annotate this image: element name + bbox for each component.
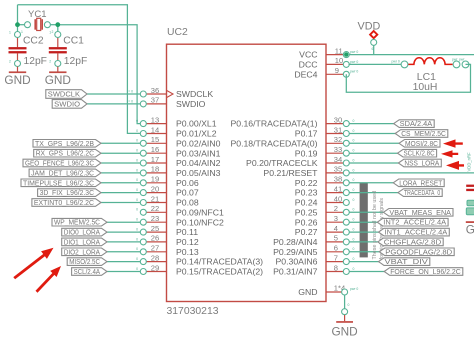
pin 29 P0.15/TRACEDATA(2) [143, 271, 166, 273]
net label MISO/2.5C [67, 258, 107, 266]
svg-text:34: 34 [334, 155, 342, 164]
svg-text:1: 1 [49, 31, 51, 35]
pin 37 SWDIO [143, 103, 166, 105]
pin circle row 31 [343, 131, 349, 137]
svg-text:pwr: pwr [459, 58, 465, 62]
svg-text:7: 7 [334, 253, 338, 262]
svg-text:2: 2 [9, 60, 11, 64]
pin 22 P0.09/NFC1 [143, 211, 166, 213]
wire junction down to CC1 [57, 25, 59, 35]
svg-text:CS_MEM/2.5C: CS_MEM/2.5C [401, 129, 446, 138]
net label TIMEPULSE_L96/2.3C [21, 179, 101, 187]
svg-text:DEC4: DEC4 [294, 69, 317, 79]
net label DIO0_LORA [62, 228, 107, 236]
capacitor at right edge plates [466, 185, 474, 187]
svg-text:8: 8 [334, 263, 338, 272]
svg-text:P0.15/TRACEDATA(2): P0.15/TRACEDATA(2) [176, 267, 263, 277]
pin circle 37 [140, 101, 146, 107]
crystal YC1 [35, 18, 42, 30]
pin 11 VCC [326, 54, 346, 56]
pin 1*4 GND [326, 291, 345, 293]
svg-text:2: 2 [52, 30, 54, 34]
svg-text:pwr 0: pwr 0 [350, 60, 358, 64]
svg-text:P0.23: P0.23 [295, 188, 318, 198]
net label VBAT_MEAS_ENA [383, 209, 453, 217]
capacitor CC1 pin 2 [55, 61, 61, 67]
svg-text:0: 0 [353, 208, 355, 212]
svg-text:17: 17 [151, 155, 159, 164]
junction at pin 11 VCC [344, 52, 349, 57]
ground GND bottom [344, 315, 346, 321]
pin circle row 6 [343, 249, 349, 255]
svg-text:P0.02/AIN0: P0.02/AIN0 [176, 138, 221, 148]
pin 15 P0.02/AIN0 [143, 142, 166, 144]
pin circle 27 [140, 249, 146, 255]
pin 19 P0.06 [143, 182, 166, 184]
pin 36 SWDCLK [143, 93, 166, 95]
pin circle 16 [140, 150, 146, 156]
svg-text:JAM_DET_L96/2.3C: JAM_DET_L96/2.3C [31, 168, 94, 177]
svg-text:GEO_FENCE_L96/2.3C: GEO_FENCE_L96/2.3C [25, 159, 94, 168]
svg-text:VBAT_MEAS_ENA: VBAT_MEAS_ENA [389, 208, 451, 217]
wire VBAT_DIV net [346, 261, 380, 263]
net label RX_GPS_L96/2.2C [34, 149, 101, 157]
pin 25 P0.11 [143, 231, 166, 233]
wire DCC to inductor LC1 [349, 63, 405, 65]
pin 31 P0.17 [326, 133, 346, 135]
pin circle 19 [140, 180, 146, 186]
svg-text:INT1_ACCEL/2.4A: INT1_ACCEL/2.4A [385, 228, 448, 237]
svg-text:0: 0 [136, 178, 138, 182]
wire INT2_ACCEL/2.4A net [346, 221, 379, 223]
svg-text:0: 0 [353, 218, 355, 222]
svg-text:CC1: CC1 [63, 35, 84, 46]
pin 35 P0.21/RESET [326, 172, 346, 174]
svg-text:LORA_RESET: LORA_RESET [399, 178, 443, 187]
pin circle 15 [140, 140, 146, 146]
svg-text:3D_FIX_L96/2.3C: 3D_FIX_L96/2.3C [40, 188, 94, 197]
wire TRACEDATA_0 net [346, 192, 400, 194]
svg-text:TRACEDATA_0: TRACEDATA_0 [404, 188, 440, 197]
net label JAM_DET_L96/2.3C [29, 169, 101, 177]
wire GEO_FENCE_L96/2.3C net [101, 162, 143, 164]
annotation arrow 1 pointing at DIO1_LORA [13, 248, 53, 279]
pin 5 P0.28/AIN4 [326, 241, 346, 243]
wire VBAT_MEAS_ENA net [346, 211, 385, 213]
svg-text:0: 0 [353, 188, 355, 192]
svg-text:P0.21/RESET: P0.21/RESET [263, 168, 318, 178]
pin 33 P0.19 [326, 152, 346, 154]
svg-text:RX_GPS_L96/2.2C: RX_GPS_L96/2.2C [36, 149, 94, 158]
svg-text:P0.03/AIN1: P0.03/AIN1 [176, 148, 221, 158]
svg-text:10uH: 10uH [413, 82, 438, 93]
pin circle 29 [140, 269, 146, 275]
svg-text:P0.17: P0.17 [295, 129, 318, 139]
pin circle row 4 [343, 229, 349, 235]
svg-text:32: 32 [334, 135, 342, 144]
svg-text:1: 1 [9, 31, 11, 35]
svg-text:26: 26 [151, 234, 159, 243]
svg-text:pwr 0: pwr 0 [350, 287, 358, 291]
svg-text:VBAT_DIV: VBAT_DIV [385, 257, 429, 266]
svg-text:CHGFLAG/2.8D: CHGFLAG/2.8D [384, 237, 441, 246]
svg-text:INT2_ACCEL/2.4A: INT2_ACCEL/2.4A [383, 218, 446, 227]
svg-text:0: 0 [136, 198, 138, 202]
svg-text:317030213: 317030213 [167, 306, 219, 317]
svg-text:DIO2_LORA: DIO2_LORA [64, 247, 100, 256]
svg-text:0: 0 [348, 303, 350, 307]
svg-text:VCC: VCC [299, 50, 317, 60]
svg-text:0: 0 [136, 139, 138, 143]
pin 2 P0.25 [326, 211, 346, 213]
svg-text:DIO1_LORA: DIO1_LORA [64, 237, 100, 246]
svg-text:GND: GND [466, 222, 474, 236]
net label SWDIO [52, 100, 87, 109]
svg-text:0: 0 [353, 158, 355, 162]
wire MISO/2.5C net [107, 261, 143, 263]
pin 41 P0.23 [326, 192, 346, 194]
net label EXTINT0_L96/2.2C [32, 199, 101, 207]
pin circle row 5 [343, 239, 349, 245]
wire CHGFLAG/2.8D net [346, 241, 380, 243]
pin circle row 33 [343, 150, 349, 156]
svg-text:SWDIO: SWDIO [176, 99, 206, 109]
svg-text:pwr 0: pwr 0 [350, 50, 358, 54]
wire PGOODFLAG/2.8D net [346, 251, 381, 253]
net label INT1_ACCEL/2.4A [379, 228, 450, 236]
svg-text:0: 0 [136, 218, 138, 222]
net label SCL/2.4A [72, 268, 107, 276]
pin circle 20 [140, 190, 146, 196]
net label TX_GPS_L96/2.2B [33, 140, 101, 148]
svg-text:DCC: DCC [299, 60, 318, 70]
svg-text:40: 40 [334, 194, 342, 203]
svg-text:P0.13: P0.13 [176, 247, 199, 257]
svg-text:33: 33 [334, 145, 342, 154]
green pads at right edge [467, 200, 474, 205]
pin circle 18 [140, 170, 146, 176]
svg-text:= 0: = 0 [128, 90, 133, 94]
svg-text:P0.29/AIN5: P0.29/AIN5 [273, 247, 318, 257]
pin 23 P0.10/NFC2 [143, 221, 166, 223]
pin 17 P0.04/AIN2 [143, 162, 166, 164]
net label SCLK/2.8C [398, 149, 437, 157]
net label INT2_ACCEL/2.4A [377, 218, 448, 226]
wire DEC4 loop under inductor [346, 64, 470, 92]
svg-text:0: 0 [353, 178, 355, 182]
svg-text:P0.26: P0.26 [295, 217, 318, 227]
junction node XC2 [15, 22, 20, 27]
pin 34 P0.20/TRACECLK [326, 162, 346, 164]
svg-text:0: 0 [136, 188, 138, 192]
wire DIO0_LORA net [107, 231, 143, 233]
svg-text:VDD: VDD [358, 21, 381, 33]
svg-text:0: 0 [353, 198, 355, 202]
svg-text:pwr 0: pwr 0 [392, 60, 400, 64]
wire crystal top loop XC2 net [18, 5, 144, 134]
inductor LC1 [408, 58, 453, 65]
pin 21 P0.08 [143, 202, 166, 204]
ground GND under CC2 [17, 67, 19, 72]
pin 40 P0.24 [326, 202, 346, 204]
svg-text:21: 21 [151, 194, 159, 203]
net label CHGFLAG/2.8D [378, 238, 443, 246]
net label FORCE_ON_L96/2.2C [384, 268, 463, 276]
svg-text:0: 0 [136, 237, 138, 241]
svg-text:P0.04/AIN2: P0.04/AIN2 [176, 158, 221, 168]
wire LORA_RESET net [346, 182, 395, 184]
svg-text:GND: GND [45, 73, 71, 87]
svg-text:3: 3 [334, 214, 338, 223]
net label WP_MEM/2.5C [52, 218, 107, 226]
svg-text:P0.20/TRACECLK: P0.20/TRACECLK [246, 158, 318, 168]
svg-text:= 0: = 0 [128, 100, 133, 104]
pin circle 10 [343, 61, 349, 67]
svg-text:WP_MEM/2.5C: WP_MEM/2.5C [54, 218, 100, 227]
svg-text:12pF: 12pF [24, 56, 47, 67]
svg-text:18: 18 [151, 165, 159, 174]
pin circle 36 [140, 91, 146, 97]
net label SDA/2.4A [394, 120, 435, 128]
svg-text:0: 0 [136, 267, 138, 271]
svg-text:P0.19: P0.19 [295, 148, 318, 158]
svg-text:0: 0 [136, 208, 138, 212]
net label DIO2_LORA [62, 248, 107, 256]
net label CS_MEM/2.5C [395, 130, 448, 138]
pin circle 13 [140, 121, 146, 127]
wire EXTINT0_L96/2.2C net [101, 202, 143, 204]
net label SWDCLK [46, 90, 87, 99]
svg-text:37: 37 [151, 96, 159, 105]
svg-text:VDD_nRF: VDD_nRF [467, 152, 472, 172]
svg-text:14: 14 [151, 125, 159, 134]
pin circle row 35 [343, 170, 349, 176]
svg-text:0: 0 [353, 168, 355, 172]
annotation arrow 4 pointing at SCLK tag [441, 150, 458, 157]
wire CS_MEM/2.5C net [346, 133, 397, 135]
annotation arrow 3 pointing at MOSI tag [443, 139, 463, 147]
svg-text:0: 0 [353, 267, 355, 271]
net label LORA_RESET [393, 179, 444, 187]
svg-text:MISO/2.5C: MISO/2.5C [69, 257, 100, 266]
pin 36 clock arrow [167, 90, 174, 97]
svg-text:0: 0 [136, 247, 138, 251]
svg-text:GND: GND [331, 324, 357, 338]
svg-text:0: 0 [136, 228, 138, 232]
svg-text:23: 23 [151, 214, 159, 223]
svg-text:15: 15 [151, 135, 159, 144]
pin 10 DCC [326, 63, 346, 65]
ground GND under CC1 [57, 67, 59, 72]
svg-text:P0.08: P0.08 [176, 198, 199, 208]
pin 18 P0.05/AIN3 [143, 172, 166, 174]
svg-text:MOSI/2.8C: MOSI/2.8C [405, 139, 438, 148]
svg-text:P0.28/AIN4: P0.28/AIN4 [273, 237, 318, 247]
net label DIO1_LORA [62, 238, 107, 246]
svg-text:35: 35 [334, 165, 342, 174]
pin circle row 3 [343, 219, 349, 225]
svg-text:SDA/2.4A: SDA/2.4A [400, 119, 433, 128]
svg-text:0: 0 [353, 119, 355, 123]
svg-text:0: 0 [353, 149, 355, 153]
svg-text:31: 31 [334, 125, 342, 134]
svg-text:P0.10/NFC2: P0.10/NFC2 [176, 217, 224, 227]
svg-text:P0.24: P0.24 [295, 198, 318, 208]
svg-text:1: 1 [21, 30, 23, 34]
svg-text:41: 41 [334, 184, 342, 193]
svg-text:P0.12: P0.12 [176, 237, 199, 247]
wire crystal XC1 net to pin 13 [58, 25, 144, 124]
svg-text:P0.25: P0.25 [295, 207, 318, 217]
pin 27 P0.13 [143, 251, 166, 253]
svg-text:25: 25 [151, 224, 159, 233]
net label GEO_FENCE_L96/2.3C [23, 159, 101, 167]
svg-text:P0.31/AIN7: P0.31/AIN7 [273, 267, 318, 277]
svg-text:12pF: 12pF [64, 56, 87, 67]
svg-text:20: 20 [151, 184, 159, 193]
svg-text:10: 10 [335, 56, 343, 65]
svg-text:0: 0 [353, 228, 355, 232]
svg-text:P0.05/AIN3: P0.05/AIN3 [176, 168, 221, 178]
svg-text:0: 0 [136, 168, 138, 172]
wire GND pin to ground symbol [344, 292, 346, 312]
pin circle row 7 [343, 259, 349, 265]
svg-text:P0.00/XL1: P0.00/XL1 [176, 119, 217, 129]
wire INT1_ACCEL/2.4A net [346, 231, 380, 233]
crystal pin 1 [25, 22, 31, 28]
svg-text:0: 0 [353, 247, 355, 251]
svg-text:0: 0 [136, 257, 138, 261]
pin circle 21 [140, 200, 146, 206]
pin circle 23 [140, 219, 146, 225]
pin circle row 30 [343, 121, 349, 127]
svg-text:36: 36 [151, 86, 159, 95]
net label NSS_LORA [398, 159, 441, 167]
wire SCL/2.4A net [107, 271, 143, 273]
wire left junction to CC2 and crystal [17, 5, 19, 35]
wire crystal right pin to junction [47, 24, 57, 26]
wire VCC rail to right edge [349, 54, 474, 56]
pin 30 P0.16/TRACEDATA(1) [326, 123, 346, 125]
svg-text:4: 4 [334, 224, 338, 233]
svg-text:P0.01/XL2: P0.01/XL2 [176, 129, 217, 139]
capacitor CC1 [57, 38, 59, 48]
svg-text:pwr 0: pwr 0 [350, 70, 358, 74]
pin 7 P0.30AIN6 [326, 261, 346, 263]
svg-text:6: 6 [334, 244, 338, 253]
svg-text:28: 28 [151, 253, 159, 262]
svg-text:0: 0 [353, 129, 355, 133]
inductor LC1 pin 2 [453, 61, 460, 68]
pin circle 28 [140, 259, 146, 265]
net label MOSI/2.8C [399, 140, 440, 148]
svg-text:SWDCLK: SWDCLK [48, 90, 80, 99]
svg-text:pwr: pwr [452, 58, 458, 62]
svg-text:0: 0 [136, 119, 138, 123]
svg-text:16: 16 [151, 145, 159, 154]
svg-text:FORCE_ON_L96/2.2C: FORCE_ON_L96/2.2C [390, 267, 461, 276]
capacitor CC2 [17, 38, 19, 48]
svg-text:P0.18/TRACEDATA(0): P0.18/TRACEDATA(0) [230, 138, 317, 148]
pin circle 14 [140, 131, 146, 137]
svg-text:GND: GND [298, 287, 317, 297]
svg-text:P0.07: P0.07 [176, 188, 199, 198]
wire RX_GPS_L96/2.2C net [101, 152, 143, 154]
wire junction to crystal left pin [18, 24, 28, 26]
svg-text:P0.27: P0.27 [295, 227, 318, 237]
svg-text:0: 0 [353, 237, 355, 241]
pin 14 P0.01/XL2 [143, 133, 166, 135]
wire JAM_DET_L96/2.3C net [101, 172, 143, 174]
pin circle row 38 [343, 180, 349, 186]
pin 20 P0.07 [143, 192, 166, 194]
svg-text:TX_GPS_L96/2.2B: TX_GPS_L96/2.2B [35, 139, 94, 148]
ground GND at right edge [466, 221, 474, 223]
wire DIO1_LORA net [107, 241, 143, 243]
svg-text:5: 5 [334, 234, 338, 243]
net label 3D_FIX_L96/2.3C [38, 189, 101, 197]
svg-text:9: 9 [335, 66, 339, 75]
svg-text:0: 0 [353, 139, 355, 143]
wire SCLK/2.8C net [346, 152, 399, 154]
svg-text:P0.11: P0.11 [176, 227, 198, 237]
wire 3D_FIX_L96/2.3C net [101, 192, 143, 194]
svg-text:30: 30 [334, 115, 342, 124]
capacitor CC2 pin 1 [15, 32, 21, 38]
svg-text:P0.22: P0.22 [295, 178, 318, 188]
svg-text:P0.09/NFC1: P0.09/NFC1 [176, 207, 224, 217]
pin circle row 8 [343, 269, 349, 275]
svg-text:22: 22 [151, 204, 159, 213]
net label VBAT_DIV [379, 258, 430, 266]
svg-text:DIO0_LORA: DIO0_LORA [64, 228, 100, 237]
wire pin 35 long net to right edge [346, 172, 474, 174]
svg-text:P0.16/TRACEDATA(1): P0.16/TRACEDATA(1) [230, 119, 317, 129]
pin 26 P0.12 [143, 241, 166, 243]
wire TIMEPULSE_L96/2.3C net [101, 182, 143, 184]
pin circle row 2 [343, 209, 349, 215]
op IC UC2 body [167, 44, 327, 301]
crystal pin 2 [44, 22, 50, 28]
annotation arrow 5 pointing at NSS_LORA tag [446, 161, 464, 170]
pin 32 P0.18/TRACEDATA(0) [326, 142, 346, 144]
pin circle 22 [140, 209, 146, 215]
pin 9 DEC4 [326, 73, 346, 75]
capacitor CC1 pin 1 [55, 32, 61, 38]
svg-text:SWDCLK: SWDCLK [176, 89, 213, 99]
wire DIO2_LORA net [107, 251, 143, 253]
svg-text:0: 0 [136, 149, 138, 153]
pin circle row 41 [343, 190, 349, 196]
svg-text:27: 27 [151, 244, 159, 253]
pin circle row 32 [343, 140, 349, 146]
svg-text:0: 0 [353, 257, 355, 261]
pin circle 25 [140, 229, 146, 235]
svg-text:P0.30AIN6: P0.30AIN6 [275, 257, 317, 267]
pin circle 26 [140, 239, 146, 245]
svg-text:CC2: CC2 [23, 35, 44, 46]
svg-text:UC2: UC2 [167, 27, 188, 38]
pin 3 P0.26 [326, 221, 346, 223]
svg-text:0: 0 [136, 129, 138, 133]
svg-text:P0.14/TRACEDATA(3): P0.14/TRACEDATA(3) [176, 257, 263, 267]
VDD pin circle [371, 39, 377, 45]
wire TX_GPS_L96/2.2B net [101, 142, 143, 144]
pin circle 17 [140, 160, 146, 166]
svg-text:EXTINT0_L96/2.2C: EXTINT0_L96/2.2C [34, 198, 94, 207]
svg-text:13: 13 [151, 115, 159, 124]
gray bar note high frequency pins [360, 183, 368, 258]
